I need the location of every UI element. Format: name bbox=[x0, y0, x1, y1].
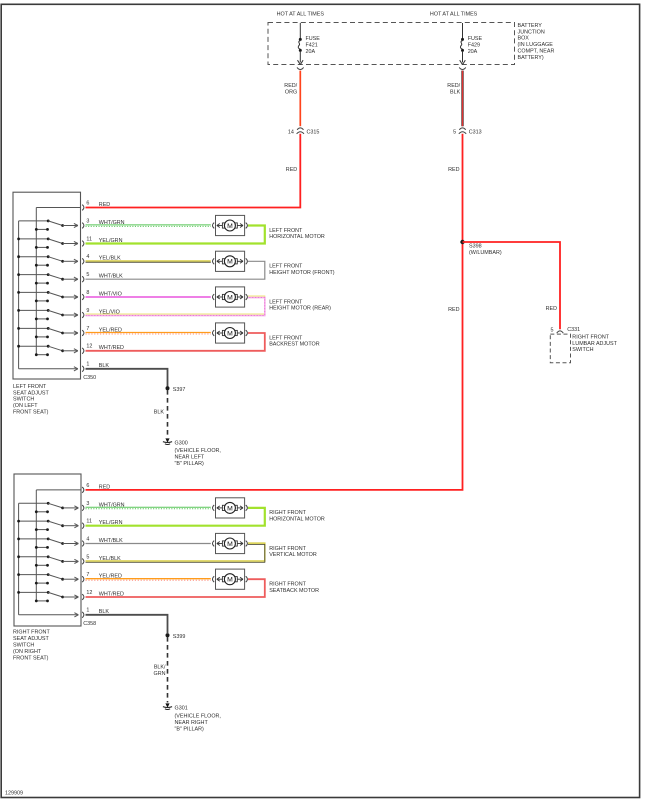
svg-text:G300: G300 bbox=[175, 440, 188, 446]
svg-text:YEL/RED: YEL/RED bbox=[99, 574, 122, 580]
svg-text:F429: F429 bbox=[468, 42, 480, 48]
svg-text:YEL/VIO: YEL/VIO bbox=[99, 309, 120, 315]
svg-text:SEAT ADJUST: SEAT ADJUST bbox=[13, 636, 49, 642]
svg-text:11: 11 bbox=[86, 519, 92, 525]
svg-text:LEFT FRONT: LEFT FRONT bbox=[13, 384, 47, 390]
svg-text:YEL/BLK: YEL/BLK bbox=[99, 256, 121, 262]
svg-text:RED/: RED/ bbox=[284, 83, 297, 89]
svg-text:14: 14 bbox=[288, 130, 294, 136]
svg-text:3: 3 bbox=[86, 218, 89, 224]
svg-text:HORIZONTAL MOTOR: HORIZONTAL MOTOR bbox=[269, 234, 325, 240]
svg-text:(W/LUMBAR): (W/LUMBAR) bbox=[469, 250, 502, 256]
svg-text:(VEHICLE FLOOR,: (VEHICLE FLOOR, bbox=[175, 448, 222, 454]
svg-text:WHT/VIO: WHT/VIO bbox=[99, 291, 122, 297]
svg-text:WHT/BLK: WHT/BLK bbox=[99, 274, 123, 280]
svg-text:5: 5 bbox=[551, 328, 554, 334]
svg-text:SEAT ADJUST: SEAT ADJUST bbox=[13, 390, 49, 396]
svg-text:5: 5 bbox=[453, 130, 456, 136]
svg-text:BATTERY: BATTERY bbox=[518, 23, 543, 29]
svg-text:M: M bbox=[227, 294, 233, 301]
svg-text:1: 1 bbox=[86, 608, 89, 614]
svg-text:RED: RED bbox=[448, 307, 459, 313]
svg-text:C315: C315 bbox=[307, 130, 320, 136]
svg-text:S397: S397 bbox=[173, 387, 186, 393]
svg-text:C350: C350 bbox=[83, 375, 96, 381]
svg-text:5: 5 bbox=[86, 272, 89, 278]
svg-text:FRONT SEAT): FRONT SEAT) bbox=[13, 410, 49, 416]
svg-text:HOT AT ALL TIMES: HOT AT ALL TIMES bbox=[430, 11, 478, 17]
svg-text:RIGHT FRONT: RIGHT FRONT bbox=[269, 510, 306, 516]
svg-text:FRONT SEAT): FRONT SEAT) bbox=[13, 656, 49, 662]
svg-text:7: 7 bbox=[86, 326, 89, 332]
svg-text:C358: C358 bbox=[83, 621, 96, 627]
svg-text:WHT/BLK: WHT/BLK bbox=[99, 538, 123, 544]
svg-text:YEL/GRN: YEL/GRN bbox=[99, 520, 123, 526]
svg-text:HOT AT ALL TIMES: HOT AT ALL TIMES bbox=[277, 11, 325, 17]
svg-text:4: 4 bbox=[86, 254, 89, 260]
svg-text:(ON RIGHT: (ON RIGHT bbox=[13, 649, 42, 655]
svg-text:6: 6 bbox=[86, 483, 89, 489]
svg-text:M: M bbox=[227, 541, 233, 548]
svg-text:RIGHT FRONT: RIGHT FRONT bbox=[269, 582, 306, 588]
svg-text:YEL/GRN: YEL/GRN bbox=[99, 238, 123, 244]
svg-text:C313: C313 bbox=[469, 130, 482, 136]
svg-text:4: 4 bbox=[86, 536, 89, 542]
svg-text:COMPT, NEAR: COMPT, NEAR bbox=[518, 48, 555, 54]
svg-text:8: 8 bbox=[86, 290, 89, 296]
svg-text:RED: RED bbox=[546, 306, 557, 312]
svg-text:1: 1 bbox=[86, 362, 89, 368]
svg-text:S399: S399 bbox=[173, 634, 186, 640]
svg-text:BLK/: BLK/ bbox=[154, 665, 166, 671]
svg-text:HEIGHT MOTOR (FRONT): HEIGHT MOTOR (FRONT) bbox=[269, 270, 335, 276]
svg-text:RED: RED bbox=[286, 167, 297, 173]
svg-text:(ON LEFT: (ON LEFT bbox=[13, 403, 38, 409]
svg-text:LUMBAR ADJUST: LUMBAR ADJUST bbox=[572, 341, 617, 347]
svg-text:NEAR RIGHT: NEAR RIGHT bbox=[175, 720, 209, 726]
svg-text:HORIZONTAL MOTOR: HORIZONTAL MOTOR bbox=[269, 517, 325, 523]
svg-text:12: 12 bbox=[86, 344, 92, 350]
svg-text:M: M bbox=[227, 330, 233, 337]
svg-text:BACKREST MOTOR: BACKREST MOTOR bbox=[269, 342, 320, 348]
svg-text:M: M bbox=[227, 577, 233, 584]
svg-text:5: 5 bbox=[86, 554, 89, 560]
svg-text:BLK: BLK bbox=[99, 363, 110, 369]
svg-text:BOX: BOX bbox=[518, 36, 530, 42]
svg-text:BLK: BLK bbox=[154, 410, 165, 416]
svg-text:LEFT FRONT: LEFT FRONT bbox=[269, 299, 303, 305]
svg-text:RED: RED bbox=[99, 484, 110, 490]
svg-text:NEAR LEFT: NEAR LEFT bbox=[175, 455, 205, 461]
svg-text:RED: RED bbox=[99, 202, 110, 208]
svg-text:11: 11 bbox=[86, 236, 92, 242]
svg-text:M: M bbox=[227, 505, 233, 512]
svg-text:M: M bbox=[227, 223, 233, 230]
svg-text:9: 9 bbox=[86, 308, 89, 314]
svg-text:SWITCH: SWITCH bbox=[572, 347, 593, 353]
svg-text:RIGHT FRONT: RIGHT FRONT bbox=[269, 546, 306, 552]
svg-text:(VEHICLE FLOOR,: (VEHICLE FLOOR, bbox=[175, 714, 222, 720]
svg-text:F421: F421 bbox=[306, 42, 318, 48]
svg-text:RED: RED bbox=[448, 167, 459, 173]
svg-text:FUSE: FUSE bbox=[306, 36, 321, 42]
svg-text:M: M bbox=[227, 259, 233, 266]
svg-text:20A: 20A bbox=[468, 49, 478, 55]
svg-text:LEFT FRONT: LEFT FRONT bbox=[269, 264, 303, 270]
svg-text:WHT/GRN: WHT/GRN bbox=[99, 502, 125, 508]
svg-text:GRN: GRN bbox=[154, 671, 166, 677]
svg-text:YEL/RED: YEL/RED bbox=[99, 327, 122, 333]
svg-text:RIGHT FRONT: RIGHT FRONT bbox=[13, 630, 50, 636]
svg-text:WHT/GRN: WHT/GRN bbox=[99, 220, 125, 226]
svg-text:WHT/RED: WHT/RED bbox=[99, 591, 124, 597]
svg-text:SEATBACK MOTOR: SEATBACK MOTOR bbox=[269, 588, 319, 594]
svg-text:ORG: ORG bbox=[285, 89, 297, 95]
svg-text:FUSE: FUSE bbox=[468, 36, 483, 42]
svg-text:SWITCH: SWITCH bbox=[13, 397, 34, 403]
svg-text:20A: 20A bbox=[306, 49, 316, 55]
svg-text:RIGHT FRONT: RIGHT FRONT bbox=[572, 334, 609, 340]
svg-text:12: 12 bbox=[86, 590, 92, 596]
svg-text:7: 7 bbox=[86, 572, 89, 578]
svg-text:BLK: BLK bbox=[99, 609, 110, 615]
svg-text:3: 3 bbox=[86, 501, 89, 507]
svg-text:G301: G301 bbox=[175, 705, 188, 711]
svg-text:BATTERY): BATTERY) bbox=[518, 55, 544, 61]
svg-text:6: 6 bbox=[86, 200, 89, 206]
svg-text:129909: 129909 bbox=[5, 791, 23, 797]
svg-text:JUNCTION: JUNCTION bbox=[518, 29, 545, 35]
svg-text:LEFT FRONT: LEFT FRONT bbox=[269, 228, 303, 234]
svg-text:"B" PILLAR): "B" PILLAR) bbox=[175, 461, 204, 467]
svg-text:YEL/BLK: YEL/BLK bbox=[99, 556, 121, 562]
svg-text:VERTICAL MOTOR: VERTICAL MOTOR bbox=[269, 552, 317, 558]
svg-text:(IN LUGGAGE: (IN LUGGAGE bbox=[518, 42, 554, 48]
svg-text:HEIGHT MOTOR (REAR): HEIGHT MOTOR (REAR) bbox=[269, 306, 331, 312]
svg-text:C331: C331 bbox=[567, 327, 580, 333]
svg-text:LEFT FRONT: LEFT FRONT bbox=[269, 335, 303, 341]
svg-text:BLK: BLK bbox=[450, 89, 461, 95]
svg-text:"B" PILLAR): "B" PILLAR) bbox=[175, 727, 204, 733]
svg-text:S398: S398 bbox=[469, 244, 482, 250]
svg-text:SWITCH: SWITCH bbox=[13, 643, 34, 649]
svg-text:WHT/RED: WHT/RED bbox=[99, 345, 124, 351]
svg-text:RED/: RED/ bbox=[447, 83, 460, 89]
